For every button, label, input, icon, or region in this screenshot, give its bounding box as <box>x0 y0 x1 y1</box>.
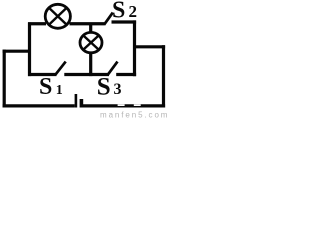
bottom wire white notch 1 <box>118 104 125 106</box>
bottom wire white notch 2 <box>134 104 141 106</box>
battery long plate (positive) <box>75 94 78 108</box>
wire lamp2 bottom stub <box>89 53 92 77</box>
wire middle right segment <box>116 73 136 76</box>
svg-text:S: S <box>97 73 111 100</box>
lamp L2 cross <box>83 35 99 49</box>
wire bottom right segment <box>83 104 165 107</box>
wire top middle segment <box>70 22 105 25</box>
svg-text:2: 2 <box>129 2 138 21</box>
wire right wall <box>162 45 165 107</box>
wire top left segment <box>28 22 46 25</box>
wire middle center segment <box>64 73 109 76</box>
svg-text:S: S <box>112 0 125 24</box>
wire middle left segment <box>28 73 57 76</box>
wire left branch vertical <box>28 22 31 76</box>
wire left wall <box>3 50 6 108</box>
wire S2 drop vertical <box>133 20 136 76</box>
lamp L2 circle <box>80 32 102 52</box>
battery short plate (negative) <box>80 99 84 108</box>
switch S3 blade <box>108 62 118 75</box>
svg-text:3: 3 <box>114 81 122 98</box>
wire S2 right contact <box>112 20 137 23</box>
svg-text:1: 1 <box>56 83 63 98</box>
wire right connector <box>133 45 165 48</box>
svg-text:manfen5.com: manfen5.com <box>100 111 167 120</box>
wire lamp2 top stub <box>89 24 92 33</box>
wire bottom left segment <box>3 104 75 107</box>
lamp L1 cross <box>49 8 67 25</box>
switch S1 blade <box>56 62 66 75</box>
svg-text:S: S <box>39 74 52 100</box>
lamp L1 circle <box>45 4 70 28</box>
switch S2 blade <box>104 13 113 25</box>
wire left connector <box>3 50 31 53</box>
